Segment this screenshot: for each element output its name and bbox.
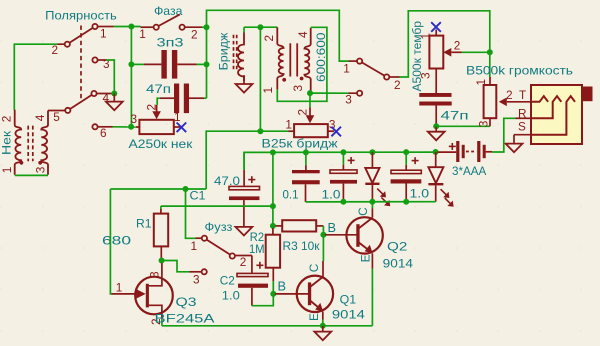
wire bridge pickup to bus: [244, 26, 277, 28]
svg-text:3: 3: [34, 166, 48, 173]
ground under tembr cap: [435, 126, 437, 131]
switch SW1a pin3 stub: [98, 59, 107, 61]
LED D1 arrows: [377, 189, 384, 196]
transistor Q2 base bar: [356, 224, 359, 247]
transformer T2 polarity dots: [282, 78, 286, 82]
svg-text:3: 3: [345, 93, 352, 107]
switch SW4 pin2 circle: [230, 253, 235, 258]
junction R1 Q3 drain: [159, 258, 165, 264]
LED D2 top lead: [435, 152, 437, 167]
LED D2 cathode bar: [428, 183, 443, 185]
junction lower bus 1.0-2: [403, 199, 409, 205]
wire lower filter bus: [306, 201, 436, 203]
svg-text:3п3: 3п3: [157, 36, 185, 50]
svg-text:2: 2: [295, 109, 309, 116]
resistor R1 top stub: [160, 206, 162, 209]
potentiometer A500k body: [429, 36, 443, 69]
switch SW2 pin1 stub: [141, 26, 154, 28]
svg-text:Е: Е: [359, 254, 373, 262]
transistor Q2 base line: [325, 234, 357, 236]
svg-text:600:600: 600:600: [315, 33, 328, 83]
svg-text:47п: 47п: [441, 109, 469, 123]
junction Q1 emitter ground: [320, 323, 326, 329]
svg-text:3: 3: [103, 57, 110, 71]
capacitor 0.1 top lead: [305, 152, 307, 165]
switch SW1b pin4 stub: [97, 93, 113, 95]
switch SW2 pin2 stub: [185, 26, 202, 28]
svg-text:1: 1: [100, 27, 107, 41]
svg-text:2: 2: [191, 27, 198, 41]
switch SW1a pin2 stub: [58, 43, 65, 45]
transformer T1 core dashed: [27, 126, 29, 162]
svg-text:С1: С1: [190, 189, 206, 203]
svg-text:2: 2: [52, 43, 59, 57]
junction bus x273: [270, 149, 276, 155]
capacitor 1.0-2 plus: [412, 160, 419, 162]
svg-text:5: 5: [53, 110, 60, 124]
jack ring stub: [516, 117, 532, 119]
transistor Q3 drain: [149, 263, 162, 286]
svg-text:1: 1: [285, 118, 292, 132]
battery right lead: [486, 151, 492, 153]
wire C2 to node B: [252, 294, 273, 306]
switch SW3 selector pin1 circle: [357, 59, 362, 64]
svg-text:1: 1: [116, 281, 123, 295]
resistor R3 body: [282, 220, 316, 231]
svg-text:3: 3: [419, 72, 433, 79]
wire B25k pin1 net: [206, 131, 288, 189]
transistor Q2 emitter: [359, 242, 371, 251]
svg-text:Т: Т: [519, 88, 526, 102]
wire top bus segment B: [400, 11, 490, 77]
switch SW1a pin1 circle: [92, 24, 97, 29]
wire gate net vertical: [110, 189, 111, 294]
svg-text:3: 3: [193, 273, 200, 287]
resistor R3 right stub: [316, 225, 323, 227]
transformer T2 left winding: [277, 27, 283, 89]
svg-text:R1: R1: [136, 217, 152, 231]
junction bus 1.0 cap: [340, 149, 346, 155]
switch SW1b blade 5-4: [70, 95, 92, 109]
svg-text:2: 2: [144, 104, 158, 111]
switch SW4 pin2 stub: [235, 255, 252, 257]
svg-text:1.0: 1.0: [322, 188, 341, 202]
wire battery plus to jack ring: [492, 118, 516, 152]
transistor Q1 emitter: [310, 301, 321, 310]
wire fuzz pin1 net: [110, 188, 206, 190]
junction 3n3 left: [128, 61, 134, 67]
junction lower bus 1.0: [340, 199, 346, 205]
junction bridge bus node: [257, 24, 263, 30]
switch SW4 pin3 circle: [202, 269, 207, 274]
capacitor C1 plus: [248, 179, 255, 181]
svg-text:3: 3: [291, 85, 305, 92]
svg-text:3*ААА: 3*ААА: [452, 164, 486, 178]
wire bridge node down: [259, 27, 261, 131]
battery plus sign: [449, 145, 456, 147]
svg-text:1.0: 1.0: [410, 187, 430, 201]
svg-text:4: 4: [296, 31, 310, 38]
wire supply bus: [244, 152, 437, 170]
ground at jack sleeve: [513, 135, 515, 144]
wire 47p to pot A250k wiper: [157, 98, 160, 105]
inductor bridge core dashed: [233, 35, 235, 72]
transformer T1 left winding: [15, 110, 22, 175]
capacitor 47p right lead: [189, 97, 204, 99]
LED D2 triangle: [428, 167, 443, 183]
switch SW1b pin5 circle: [65, 108, 70, 113]
svg-text:C: C: [307, 263, 321, 272]
junction tembr cap ground node: [433, 123, 439, 129]
potentiometer B500k pin3 stub: [489, 118, 491, 126]
resistor R2 bottom stub: [272, 268, 274, 281]
ground under Q1: [322, 326, 324, 332]
svg-text:2: 2: [394, 78, 401, 92]
junction R2 R3 node: [270, 223, 276, 229]
no-connect X on pot A250k pin1: [177, 123, 187, 133]
svg-text:2: 2: [262, 35, 276, 42]
svg-text:1: 1: [0, 167, 14, 174]
capacitor C1 bottom lead: [243, 200, 245, 227]
wire emitter ground bus: [162, 325, 373, 327]
capacitor 1.0-2 top lead: [405, 152, 407, 165]
junction phase pin2 node: [204, 24, 210, 30]
capacitor 3n3 left lead: [131, 63, 144, 65]
potentiometer A500k wiper: [443, 48, 451, 57]
switch SW3 pin2 circle: [384, 74, 389, 79]
svg-text:Q2: Q2: [387, 240, 408, 254]
capacitor 0.1 bottom lead: [305, 184, 307, 202]
battery left lead: [438, 151, 457, 153]
jack tip contact: [531, 96, 548, 102]
switch SW4 pin3 stub: [190, 271, 202, 273]
wire node down to Q1 collector: [322, 235, 324, 261]
junction T2 pin3 node: [307, 90, 313, 96]
resistor R3 left stub: [276, 225, 283, 227]
transistor Q3 source: [149, 305, 162, 319]
junction bus battery: [433, 149, 439, 155]
switch SW1b pin6 stub: [98, 126, 113, 128]
svg-text:1: 1: [191, 239, 198, 253]
junction lower bus LED1 Q2C: [369, 199, 375, 205]
transistor Q2 collector: [359, 218, 373, 229]
capacitor C1 plates: [229, 186, 260, 189]
junction Q2 base node: [320, 232, 326, 238]
inductor bridge pickup winding: [238, 33, 244, 82]
potentiometer B500k pin1 stub: [489, 77, 491, 85]
wire fuzz pin3 to drain node: [162, 261, 190, 272]
ground under C1: [236, 227, 253, 236]
potentiometer B25k body: [294, 124, 328, 137]
switch SW1a pin1 stub: [98, 26, 114, 28]
switch SW4 blade: [207, 240, 231, 255]
svg-text:Бридж: Бридж: [217, 33, 231, 71]
svg-text:3: 3: [131, 112, 138, 126]
wire pot pin3 to node: [113, 126, 136, 128]
svg-text:Фузз: Фузз: [205, 220, 233, 234]
LED D2 bottom lead: [435, 185, 437, 201]
junction 3n3 right node: [204, 61, 210, 67]
svg-text:6: 6: [100, 126, 107, 140]
transistor Q1 circle: [297, 276, 333, 312]
capacitor C2 plus: [256, 264, 263, 266]
junction polarity node x131: [128, 24, 134, 30]
ground under polarity switch: [113, 94, 115, 102]
switch SW2 pin1 circle: [154, 25, 159, 30]
wire R3 to Q2 base node: [322, 226, 324, 235]
svg-text:Полярность: Полярность: [45, 8, 117, 22]
svg-text:2: 2: [0, 116, 14, 123]
svg-text:А250к нек: А250к нек: [129, 137, 194, 151]
wire linking transformer bottom pins: [15, 174, 48, 176]
capacitor C1 top lead: [243, 152, 245, 170]
svg-text:B: B: [278, 279, 287, 294]
capacitor 1.0 top lead: [342, 152, 344, 164]
switch SW2 blade: [159, 14, 180, 26]
potentiometer A250k body: [139, 120, 173, 134]
potentiometer A500k pin3 lead: [435, 69, 437, 94]
svg-text:S: S: [518, 120, 526, 134]
connector jack sleeve tab: [582, 87, 593, 102]
resistor R1 bottom stub: [160, 246, 162, 258]
LED D2 arrows: [441, 189, 448, 196]
svg-text:Q3: Q3: [176, 295, 197, 309]
svg-text:Е: Е: [307, 313, 321, 321]
transformer T1 pin4 lead to switch: [48, 110, 65, 112]
transistor Q2 circle: [346, 217, 382, 253]
capacitor 47p bottom lead: [435, 106, 437, 127]
LED D1 top lead: [371, 152, 373, 168]
junction bus LED1: [369, 149, 375, 155]
capacitor C2 top lead: [251, 256, 253, 274]
battery cells: [456, 141, 459, 162]
jack ring contact: [531, 96, 561, 118]
svg-text:1.0: 1.0: [222, 289, 240, 303]
resistor R2 top stub: [272, 226, 274, 228]
LED D1 triangle: [365, 168, 379, 183]
junction R1 net: [270, 203, 276, 209]
svg-text:R3 10к: R3 10к: [283, 239, 321, 253]
wire pin3 to ground node: [106, 60, 114, 94]
switch SW1 linkage dashed: [80, 26, 82, 100]
transistor Q3 channel bar: [146, 284, 149, 308]
wire T2 pin1 to pin4 loop: [277, 27, 327, 101]
switch SW1b pin6 circle: [92, 124, 97, 129]
capacitor 47p plates: [174, 84, 179, 114]
switch SW3 pin3 stub: [349, 92, 358, 94]
switch SW3 pin1 stub: [349, 60, 358, 62]
jack sleeve contact: [531, 96, 575, 135]
svg-text:C: C: [356, 207, 370, 216]
potentiometer A500k pin1 stub: [435, 30, 437, 36]
svg-text:4: 4: [33, 114, 47, 121]
svg-text:Нек: Нек: [0, 130, 13, 155]
junction B25k node: [257, 128, 263, 134]
resistor R2 body: [266, 235, 280, 268]
svg-text:В25к бридж: В25к бридж: [262, 137, 338, 151]
switch SW4 fuzz pin1 circle: [202, 236, 207, 241]
potentiometer A250k wiper: [156, 105, 158, 113]
wire vertical net x131: [130, 27, 132, 127]
svg-text:А500к тембр: А500к тембр: [410, 21, 424, 92]
switch SW1a blade 2-1: [70, 28, 93, 43]
connector jack body: [531, 85, 582, 144]
capacitor C2 plates: [237, 273, 268, 276]
wire R1 top net: [161, 205, 273, 207]
capacitor 1.0-2 bottom lead: [405, 184, 407, 202]
junction bus 1.0 cap 2: [403, 149, 409, 155]
svg-text:2: 2: [454, 38, 461, 52]
wire T2 pin3 node to selector pin3: [310, 92, 349, 94]
junction tembr wiper node: [487, 49, 493, 55]
svg-text:0.1: 0.1: [283, 188, 299, 202]
transformer T2 right winding: [304, 28, 310, 92]
resistor R1 body: [154, 214, 168, 247]
capacitor 1.0 plus: [348, 159, 355, 161]
svg-text:BF245A: BF245A: [155, 312, 215, 326]
jack sleeve stub: [514, 134, 531, 136]
capacitor 1.0 plates: [330, 170, 357, 173]
transistor Q3 gate lead: [112, 293, 138, 295]
svg-text:3: 3: [148, 271, 162, 278]
svg-text:B: B: [328, 220, 337, 235]
junction node B: [270, 291, 276, 297]
switch SW3 pin3 circle: [357, 91, 362, 96]
junction bus 0.1 cap: [303, 149, 309, 155]
transistor Q1 collector: [310, 277, 323, 287]
junction switch ground node: [111, 91, 117, 97]
potentiometer A250k pin1 stub: [174, 126, 181, 128]
transistor Q3 circle: [135, 277, 173, 315]
capacitor 1.0 bottom lead: [342, 184, 344, 202]
svg-text:47п: 47п: [146, 82, 171, 96]
svg-text:680: 680: [102, 234, 132, 248]
LED D1 cathode bar: [365, 183, 379, 185]
capacitor 47p left lead: [160, 97, 174, 99]
svg-text:9014: 9014: [332, 307, 365, 321]
junction fuzz net: [183, 186, 189, 192]
switch SW1a pin2 circle: [65, 42, 70, 47]
transistor Q1 base bar: [308, 282, 311, 305]
svg-text:1: 1: [139, 27, 146, 41]
transformer T1 right winding: [41, 111, 48, 175]
potentiometer B500k wiper: [499, 98, 507, 107]
wire x273 vertical: [272, 152, 274, 226]
potentiometer B25k wiper: [309, 107, 311, 116]
wire to neck transformer pin2: [14, 44, 57, 110]
no-connect X on B25k pin3: [331, 127, 341, 137]
svg-text:9014: 9014: [383, 257, 414, 271]
svg-text:B500k громкость: B500k громкость: [466, 63, 573, 77]
switch SW2 pin2 circle: [180, 25, 185, 30]
switch SW3 pin2 stub: [389, 76, 399, 78]
capacitor 1.0-2 plates: [391, 170, 421, 173]
wire top bus segment A (phase junction to selector pin1): [207, 10, 349, 98]
transistor Q1 base line: [275, 293, 308, 295]
junction pot A250k pin3 node: [128, 124, 134, 130]
svg-text:2: 2: [506, 88, 513, 102]
svg-text:Q1: Q1: [340, 293, 357, 307]
svg-text:C2: C2: [220, 274, 235, 288]
switch SW1b pin4 circle: [91, 91, 96, 96]
transformer T1 polarity dots: [20, 161, 24, 165]
svg-text:1М: 1М: [249, 242, 265, 256]
wire net from polarity switch pin1 to phase switch pin1: [114, 26, 141, 28]
capacitor 47p tembr plates: [419, 93, 451, 97]
capacitor 3n3 plates: [161, 50, 166, 79]
switch SW4 pin1 stub: [196, 237, 202, 239]
svg-text:1: 1: [261, 87, 275, 94]
potentiometer B25k pin1 stub: [289, 130, 295, 132]
wire phase pin2 to bus: [202, 26, 207, 28]
ground under bridge pickup: [243, 75, 245, 84]
capacitor 3n3 right lead: [177, 63, 196, 65]
svg-text:1: 1: [343, 61, 350, 75]
transformer T2 core: [289, 43, 291, 76]
svg-text:3: 3: [477, 120, 491, 127]
potentiometer A250k pin3 stub: [136, 126, 140, 128]
switch SW3 blade: [362, 62, 385, 75]
capacitor C2 bottom lead: [251, 288, 253, 306]
wire tembr wiper to node: [462, 51, 490, 53]
switch SW1a pin3 circle: [92, 57, 97, 62]
no-connect X on A500k pin1: [431, 22, 441, 32]
svg-text:2: 2: [240, 255, 247, 269]
wire fuzz net down: [186, 189, 196, 238]
wire Q2 emitter to ground bus: [371, 269, 373, 326]
wire tembr cap node to B500k pin3: [436, 125, 490, 127]
potentiometer B500k body: [484, 85, 497, 118]
wire Q3 source to ground bus: [161, 319, 163, 326]
transistor Q3 gate arrow: [136, 289, 146, 299]
potentiometer B25k pin3 stub: [328, 130, 334, 132]
wire T2 pin3 node to B25k wiper: [309, 93, 311, 107]
LED D1 bottom lead: [371, 185, 373, 202]
capacitor 0.1 plates: [292, 170, 320, 173]
